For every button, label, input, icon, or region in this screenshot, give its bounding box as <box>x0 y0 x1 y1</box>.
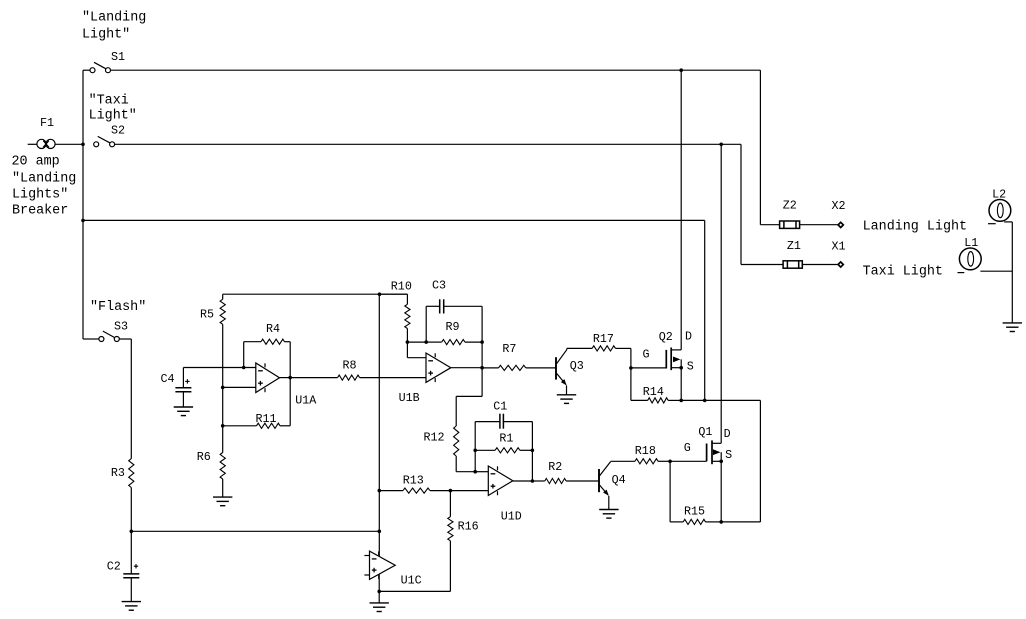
svg-text:D: D <box>685 329 692 343</box>
svg-text:S: S <box>687 359 694 373</box>
switch S2 <box>94 136 115 146</box>
node: R9 right junction <box>480 340 484 344</box>
wire: Q1 gate lead <box>670 460 707 462</box>
resistor R12 <box>454 368 483 472</box>
fuse Z1 <box>783 261 802 268</box>
node: R10 bottom junction <box>406 340 410 344</box>
node: timing node at U1C column <box>378 530 382 534</box>
svg-text:R16: R16 <box>458 520 479 534</box>
node: R11 left junction <box>221 424 225 428</box>
svg-text:L1: L1 <box>964 236 978 250</box>
caption: Landing Light switch name <box>82 11 146 43</box>
node: Q1 gate junction <box>668 460 672 464</box>
wire: R10 to R9 link <box>407 341 426 343</box>
resistor R10 <box>380 294 411 342</box>
svg-text:S1: S1 <box>111 50 125 64</box>
svg-text:R14: R14 <box>643 385 664 399</box>
resistor R2 <box>532 478 599 483</box>
node: feedback rail to main riser <box>378 292 382 296</box>
capacitor C4 electrolytic <box>175 368 191 408</box>
lamp L1 Taxi Light <box>958 248 1013 273</box>
wire: R5/R6 column <box>222 387 224 425</box>
wire: U1B minus input drop <box>406 342 408 358</box>
wire: timing node horizontal run to U1C <box>131 530 379 532</box>
svg-text:U1B: U1B <box>399 391 420 405</box>
wire: Q1 source down <box>720 461 722 522</box>
wire: Z2 to X2 <box>800 224 838 226</box>
svg-text:R9: R9 <box>446 320 460 334</box>
node: R3/C2 junction <box>130 530 134 534</box>
connector X2 <box>838 222 843 227</box>
resistor R5 <box>220 294 225 387</box>
node: U1A output junction <box>288 376 292 380</box>
svg-text:Q3: Q3 <box>570 359 584 373</box>
svg-text:D: D <box>724 427 731 441</box>
wire: R3 to C2 node <box>130 488 132 532</box>
wire: feedback top rail y=294 <box>223 293 408 295</box>
svg-text:U1C: U1C <box>401 573 422 587</box>
node: Q1 drain branch junction <box>719 143 723 147</box>
svg-text:R12: R12 <box>424 431 445 445</box>
wire: lamp common return to ground <box>1011 222 1013 323</box>
transistor Q2 MOSFET <box>666 348 681 371</box>
node: Q2 gate junction <box>629 366 633 370</box>
value label: 20 amp Landing Lights Breaker <box>12 154 77 218</box>
svg-text:"Landing: "Landing <box>82 11 146 26</box>
node: R16 top junction <box>449 489 453 493</box>
svg-text:R17: R17 <box>593 332 614 346</box>
svg-text:R10: R10 <box>391 279 412 293</box>
wire: U1A minus input from C4 <box>183 367 255 369</box>
wire: S1 bus to lamp branch, y=70 <box>111 69 761 71</box>
wire: U1D output <box>513 480 533 482</box>
wire: R9/C3 right leg to output <box>481 342 483 368</box>
node: U1A plus input junction <box>221 386 225 390</box>
node: U1B output junction <box>480 366 484 370</box>
node: Q1 source junction <box>719 460 723 464</box>
node: R13 left junction <box>378 489 382 493</box>
resistor R9 <box>426 340 482 345</box>
svg-text:"Flash": "Flash" <box>90 300 146 315</box>
wire: main left vertical bus from S1 down to S3 <box>82 70 84 339</box>
svg-text:S: S <box>725 448 732 462</box>
ground: lamp return <box>1003 322 1022 324</box>
op-amp U1B <box>426 353 451 382</box>
svg-text:F1: F1 <box>40 116 54 130</box>
svg-text:R15: R15 <box>684 504 705 518</box>
wire: R16 bottom return <box>379 590 450 592</box>
node: U1D output junction <box>531 479 535 483</box>
capacitor C1 <box>475 414 532 451</box>
svg-text:C4: C4 <box>161 372 175 386</box>
svg-text:Light": Light" <box>82 28 130 43</box>
caption: Taxi Light switch name <box>89 93 137 123</box>
wire: Z1 to X1 <box>802 264 838 266</box>
node: U1D minus input junction <box>473 470 477 474</box>
svg-text:C3: C3 <box>432 279 446 293</box>
wire: C1/R1 left leg <box>474 450 476 471</box>
fuse F1 circuit breaker symbol <box>28 139 83 148</box>
ground: Q3 emitter <box>557 394 576 396</box>
resistor R8 <box>290 375 426 380</box>
node: R9/C3 left junction <box>424 340 428 344</box>
wire: S1 branch down to Z2 <box>759 70 761 225</box>
svg-text:C1: C1 <box>493 399 507 413</box>
op-amp U1D <box>488 466 513 496</box>
svg-text:Breaker: Breaker <box>12 204 68 219</box>
connector X1 <box>838 262 843 267</box>
transistor Q3 NPN <box>556 348 567 394</box>
resistor R6 <box>220 426 225 497</box>
svg-text:R13: R13 <box>403 473 424 487</box>
svg-text:"Taxi: "Taxi <box>89 93 129 108</box>
resistor R4 feedback <box>244 339 291 378</box>
svg-text:Q1: Q1 <box>698 425 712 439</box>
node: F1 output junction on left bus <box>81 143 85 147</box>
wire: U1A output <box>280 377 291 379</box>
svg-text:Taxi Light: Taxi Light <box>863 265 943 280</box>
resistor R16 <box>448 491 453 592</box>
wire: U1D minus input <box>475 471 488 473</box>
wire: S2 branch down to Z1 <box>740 144 742 264</box>
wire: S3 to R3 <box>130 339 132 459</box>
svg-text:X1: X1 <box>832 240 846 254</box>
ground: under R6 <box>213 496 232 498</box>
ground: under C4 <box>174 406 193 408</box>
resistor R18 <box>611 459 670 464</box>
wire: source rail loop to R15 right <box>705 399 761 401</box>
wire: C1/R1 right leg <box>531 450 533 481</box>
capacitor C3 <box>426 299 482 342</box>
node: R4 tap on minus input <box>242 366 246 370</box>
ground: Q4 emitter <box>599 509 618 511</box>
svg-text:Lights": Lights" <box>12 188 68 203</box>
node: R1 right junction <box>531 449 535 453</box>
svg-text:G: G <box>643 347 650 361</box>
svg-text:S2: S2 <box>111 124 125 138</box>
resistor R7 <box>482 365 556 370</box>
svg-text:Light": Light" <box>89 109 137 124</box>
wire: U1B output <box>451 367 482 369</box>
svg-text:R3: R3 <box>111 466 125 480</box>
svg-text:S3: S3 <box>114 319 128 333</box>
wire: Q2 gate lead <box>631 367 666 369</box>
svg-text:X2: X2 <box>832 199 846 213</box>
capacitor C2 electrolytic <box>123 531 139 601</box>
wire: main riser x=379 down to U1C <box>378 294 380 490</box>
svg-text:U1D: U1D <box>501 510 522 524</box>
node: U1C ground junction <box>377 590 381 594</box>
svg-text:R5: R5 <box>200 307 214 321</box>
transistor Q1 MOSFET <box>707 440 722 464</box>
wire: U1C bottom to ground rail <box>378 574 380 591</box>
ground: under C2 <box>122 601 141 603</box>
resistor R13 <box>379 488 450 493</box>
wire: bus3 supply rail y=220 from breaker to MOSFET sources <box>83 219 705 221</box>
resistor R15 <box>670 461 721 524</box>
transistor Q4 NPN <box>599 462 611 510</box>
svg-text:R8: R8 <box>343 359 357 373</box>
svg-text:R11: R11 <box>256 412 277 426</box>
ground: under U1C <box>370 591 389 611</box>
svg-text:"Landing: "Landing <box>12 172 76 187</box>
svg-text:Q4: Q4 <box>612 473 626 487</box>
svg-text:20 amp: 20 amp <box>12 154 60 169</box>
switch S3 Flash <box>83 331 131 341</box>
svg-text:R6: R6 <box>197 450 211 464</box>
resistor R11 <box>223 378 291 429</box>
svg-text:R4: R4 <box>266 322 280 336</box>
wire: Q1 drain riser <box>720 144 722 443</box>
node: R14/Q2 source junction <box>679 399 683 403</box>
wire: U1A plus input <box>223 386 256 388</box>
svg-text:C2: C2 <box>107 559 121 573</box>
node: R15 right junction <box>719 520 723 524</box>
wire: U1D plus input <box>450 490 488 492</box>
svg-text:Landing Light: Landing Light <box>863 219 967 234</box>
node: bus3 bottom junction <box>703 399 707 403</box>
op-amp U1C <box>364 551 395 579</box>
resistor R17 <box>567 346 631 368</box>
lamp L2 Landing Light <box>988 200 1012 224</box>
fuse Z2 <box>780 221 800 228</box>
resistor R3 <box>129 459 134 488</box>
node: Q2 drain branch junction <box>679 68 683 72</box>
node: bus3 tap junction on left bus <box>81 219 85 223</box>
svg-text:R7: R7 <box>502 342 516 356</box>
wire: Q2 source to R14 rail <box>680 368 682 401</box>
node: R1 left junction <box>473 449 477 453</box>
op-amp U1A <box>256 363 280 393</box>
resistor R1 <box>475 448 532 453</box>
wire: Q2 drain riser <box>680 70 682 350</box>
svg-text:Z2: Z2 <box>783 198 797 212</box>
svg-text:R2: R2 <box>548 460 562 474</box>
svg-text:U1A: U1A <box>295 394 317 408</box>
svg-text:L2: L2 <box>992 188 1006 202</box>
svg-text:G: G <box>684 441 691 455</box>
wire: source rail to bus3 drop <box>681 399 705 401</box>
node: Q2 source junction <box>679 366 683 370</box>
svg-text:Q2: Q2 <box>659 330 673 344</box>
svg-text:R18: R18 <box>635 444 656 458</box>
svg-text:R1: R1 <box>499 431 513 445</box>
wire: S2 bus to lamp branch, y=144 <box>115 143 741 145</box>
resistor R14 <box>631 368 681 403</box>
switch S1 <box>83 62 111 72</box>
svg-text:Z1: Z1 <box>787 239 801 253</box>
